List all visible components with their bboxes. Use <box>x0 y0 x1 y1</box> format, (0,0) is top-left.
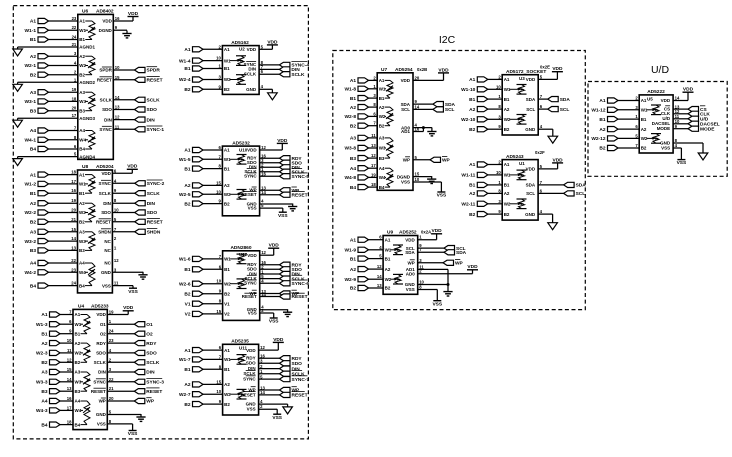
svg-text:SDO: SDO <box>101 210 111 215</box>
svg-text:14: 14 <box>67 377 72 382</box>
svg-text:VDD: VDD <box>683 87 694 93</box>
svg-text:GND: GND <box>101 270 112 275</box>
svg-text:B1: B1 <box>224 267 230 272</box>
svg-text:VSS: VSS <box>248 206 257 211</box>
svg-text:15: 15 <box>216 309 221 314</box>
svg-text:VDD: VDD <box>102 19 112 24</box>
svg-text:14: 14 <box>71 236 76 241</box>
svg-text:SCL: SCL <box>560 107 570 113</box>
svg-text:20: 20 <box>415 75 420 80</box>
svg-text:SYNC-5: SYNC-5 <box>292 174 310 180</box>
svg-text:U5: U5 <box>647 96 653 101</box>
svg-text:VSS: VSS <box>247 407 256 412</box>
svg-text:B2: B2 <box>184 402 190 408</box>
svg-text:A4: A4 <box>30 261 36 267</box>
svg-text:W2-12: W2-12 <box>591 136 605 142</box>
svg-text:B2: B2 <box>224 201 230 206</box>
svg-text:10: 10 <box>496 170 501 175</box>
svg-text:A2: A2 <box>79 201 85 206</box>
svg-text:W4-3: W4-3 <box>36 408 48 414</box>
svg-text:W2-8: W2-8 <box>345 114 357 120</box>
svg-text:15: 15 <box>115 75 120 80</box>
svg-text:DIN: DIN <box>103 201 111 206</box>
svg-text:23: 23 <box>72 16 77 21</box>
svg-text:VDD: VDD <box>552 66 563 72</box>
svg-text:VSS: VSS <box>128 431 138 437</box>
svg-text:W3-2: W3-2 <box>25 239 37 245</box>
svg-text:RESET: RESET <box>147 78 163 84</box>
svg-text:22: 22 <box>72 25 77 30</box>
svg-text:A4: A4 <box>379 166 385 171</box>
svg-text:B4: B4 <box>41 422 47 428</box>
svg-text:A2: A2 <box>75 341 81 346</box>
svg-text:U2: U2 <box>239 47 245 52</box>
svg-text:B2: B2 <box>224 291 230 296</box>
svg-text:AD1: AD1 <box>401 129 410 134</box>
svg-text:DIN: DIN <box>147 201 156 207</box>
svg-text:19: 19 <box>71 198 76 203</box>
svg-text:SCLK: SCLK <box>100 98 113 103</box>
svg-text:0x2F: 0x2F <box>535 150 545 155</box>
svg-text:W4-2: W4-2 <box>25 270 37 276</box>
svg-text:SDO: SDO <box>102 107 112 112</box>
svg-text:VSS: VSS <box>432 301 442 307</box>
svg-text:AGND4: AGND4 <box>79 154 95 159</box>
svg-text:SPDR: SPDR <box>99 68 112 73</box>
svg-text:0x2B: 0x2B <box>417 67 427 72</box>
svg-text:15: 15 <box>71 227 76 232</box>
svg-text:VDD: VDD <box>661 98 671 103</box>
svg-text:B1: B1 <box>184 367 190 373</box>
svg-text:W1-5: W1-5 <box>179 157 191 163</box>
svg-text:B1: B1 <box>469 97 475 103</box>
svg-text:B2: B2 <box>184 291 190 297</box>
svg-text:A3: A3 <box>41 370 47 376</box>
svg-text:24: 24 <box>109 329 114 334</box>
svg-text:21: 21 <box>72 42 77 47</box>
svg-text:SDA: SDA <box>526 97 536 102</box>
svg-text:13: 13 <box>71 245 76 250</box>
svg-text:B2: B2 <box>504 212 510 217</box>
svg-text:W1-4: W1-4 <box>179 58 191 64</box>
svg-text:SCL: SCL <box>526 107 535 112</box>
svg-text:B2: B2 <box>599 146 605 152</box>
svg-text:B2: B2 <box>385 286 391 291</box>
svg-text:12: 12 <box>261 145 266 150</box>
svg-text:10: 10 <box>496 84 501 89</box>
svg-text:NC: NC <box>104 261 111 266</box>
svg-text:A1: A1 <box>379 78 385 83</box>
svg-text:SDA: SDA <box>526 183 536 188</box>
svg-text:18: 18 <box>71 170 76 175</box>
svg-text:SDA: SDA <box>401 102 411 107</box>
svg-text:10: 10 <box>216 189 221 194</box>
svg-text:13: 13 <box>67 386 72 391</box>
svg-text:VDD: VDD <box>438 67 449 73</box>
svg-text:VDD: VDD <box>128 11 139 17</box>
svg-text:B1: B1 <box>379 96 385 101</box>
svg-text:U4: U4 <box>78 304 84 310</box>
svg-text:W2-7: W2-7 <box>179 392 191 398</box>
svg-text:RESET: RESET <box>242 192 257 197</box>
svg-text:U3: U3 <box>519 76 525 81</box>
svg-text:AD5252: AD5252 <box>399 230 417 236</box>
svg-text:18: 18 <box>371 182 376 187</box>
svg-text:VSS: VSS <box>677 160 687 166</box>
svg-text:RESET: RESET <box>147 220 163 226</box>
svg-text:10: 10 <box>216 389 221 394</box>
svg-text:SYNC: SYNC <box>244 174 257 179</box>
svg-text:SCLK: SCLK <box>99 191 112 196</box>
svg-text:A1: A1 <box>184 148 190 154</box>
svg-text:SDA: SDA <box>405 250 415 255</box>
svg-text:AGND1: AGND1 <box>79 45 95 50</box>
svg-text:SDA: SDA <box>445 102 456 108</box>
svg-text:10: 10 <box>415 177 420 182</box>
svg-text:A4: A4 <box>79 128 85 133</box>
svg-text:24: 24 <box>72 35 77 40</box>
svg-text:VDD: VDD <box>123 305 134 311</box>
svg-text:RDY: RDY <box>292 356 303 362</box>
svg-text:B2: B2 <box>504 127 510 132</box>
svg-text:A4: A4 <box>79 261 85 266</box>
svg-text:B1: B1 <box>385 256 391 261</box>
svg-text:B3: B3 <box>30 108 36 114</box>
svg-text:A3: A3 <box>79 90 85 95</box>
svg-text:B1: B1 <box>350 96 356 102</box>
svg-text:RESET: RESET <box>241 392 256 397</box>
svg-text:B3: B3 <box>379 156 385 161</box>
svg-text:20: 20 <box>72 106 77 111</box>
svg-text:W2-2: W2-2 <box>25 210 37 216</box>
svg-text:SYNC-1: SYNC-1 <box>147 127 165 133</box>
svg-text:AD5204: AD5204 <box>96 164 114 170</box>
svg-text:13: 13 <box>377 283 382 288</box>
svg-text:AD0: AD0 <box>406 271 415 276</box>
svg-text:GND: GND <box>525 127 536 132</box>
svg-text:VSS: VSS <box>248 311 257 316</box>
svg-text:DIN: DIN <box>98 370 106 375</box>
svg-text:A1: A1 <box>41 312 47 318</box>
svg-text:B2: B2 <box>79 220 85 225</box>
svg-text:17: 17 <box>72 113 77 118</box>
svg-text:SCL: SCL <box>526 191 535 196</box>
svg-text:W1-11: W1-11 <box>461 173 475 179</box>
svg-text:22: 22 <box>71 258 76 263</box>
svg-text:19: 19 <box>72 87 77 92</box>
svg-text:10: 10 <box>216 56 221 61</box>
svg-text:SCLK: SCLK <box>146 360 160 366</box>
svg-text:B1: B1 <box>504 97 510 102</box>
svg-text:23: 23 <box>71 267 76 272</box>
svg-text:A1: A1 <box>79 19 85 24</box>
svg-text:VDD: VDD <box>526 77 536 82</box>
svg-text:B1: B1 <box>30 191 36 197</box>
svg-text:SCLK: SCLK <box>243 371 256 376</box>
svg-text:I2C: I2C <box>439 34 456 46</box>
svg-text:B4: B4 <box>350 185 356 191</box>
svg-text:19: 19 <box>371 172 376 177</box>
svg-text:W2-3: W2-3 <box>36 351 48 357</box>
svg-text:10: 10 <box>115 65 120 70</box>
svg-text:B1: B1 <box>350 256 356 262</box>
svg-text:B1: B1 <box>224 367 230 372</box>
svg-text:SCL: SCL <box>576 191 586 197</box>
svg-text:VDD: VDD <box>247 148 257 153</box>
svg-text:SYNC-7: SYNC-7 <box>292 377 310 383</box>
svg-text:GND: GND <box>525 212 536 217</box>
svg-text:B2: B2 <box>379 123 385 128</box>
svg-text:A4: A4 <box>350 166 356 172</box>
svg-text:A1: A1 <box>504 77 510 82</box>
svg-text:W1-6: W1-6 <box>179 257 191 263</box>
svg-text:B1: B1 <box>599 117 605 123</box>
svg-text:A2: A2 <box>469 107 475 113</box>
svg-text:WP: WP <box>407 261 414 266</box>
svg-text:RDY: RDY <box>146 341 157 347</box>
svg-text:A1: A1 <box>350 78 356 84</box>
svg-text:B4: B4 <box>30 147 36 153</box>
svg-text:W3-1: W3-1 <box>25 99 37 105</box>
svg-text:A1: A1 <box>75 312 81 317</box>
svg-text:12: 12 <box>371 153 376 158</box>
svg-text:A1: A1 <box>224 348 230 353</box>
svg-text:A2: A2 <box>599 127 605 133</box>
svg-text:B2: B2 <box>641 146 647 151</box>
svg-text:VDD: VDD <box>405 237 415 242</box>
svg-text:14: 14 <box>377 274 382 279</box>
svg-text:U6: U6 <box>82 9 88 15</box>
svg-text:RESET: RESET <box>97 78 112 83</box>
svg-text:VDD: VDD <box>101 171 111 176</box>
svg-text:13: 13 <box>115 105 120 110</box>
svg-text:A2: A2 <box>224 183 230 188</box>
svg-text:10: 10 <box>216 279 221 284</box>
svg-text:VSS: VSS <box>401 180 410 185</box>
svg-text:20: 20 <box>71 208 76 213</box>
svg-text:B2: B2 <box>350 286 356 292</box>
svg-text:A2: A2 <box>184 382 190 388</box>
svg-text:AGND3: AGND3 <box>79 116 95 121</box>
svg-text:16: 16 <box>115 16 120 21</box>
svg-text:12: 12 <box>261 250 266 255</box>
svg-text:VSS: VSS <box>269 319 279 325</box>
svg-text:RESET: RESET <box>146 389 162 395</box>
svg-text:VDD: VDD <box>247 47 257 52</box>
svg-text:SDO: SDO <box>246 361 256 366</box>
svg-text:0x2A: 0x2A <box>421 230 431 235</box>
svg-text:RESET: RESET <box>242 294 257 299</box>
svg-text:VDD: VDD <box>401 78 411 83</box>
svg-text:B1: B1 <box>469 183 475 189</box>
svg-text:A2: A2 <box>79 54 85 59</box>
svg-text:B1: B1 <box>184 267 190 273</box>
svg-text:AD5222: AD5222 <box>647 89 665 95</box>
svg-text:0x2E: 0x2E <box>540 65 550 70</box>
svg-text:B2: B2 <box>41 360 47 366</box>
svg-text:RESET: RESET <box>292 192 308 198</box>
svg-text:AGND2: AGND2 <box>79 80 95 85</box>
svg-text:VSS: VSS <box>661 146 670 151</box>
svg-text:AD5233: AD5233 <box>91 304 109 310</box>
svg-text:SYNC: SYNC <box>244 281 257 286</box>
svg-text:W1-8: W1-8 <box>345 87 357 93</box>
svg-text:SDO: SDO <box>147 210 158 216</box>
svg-text:SYNC: SYNC <box>93 380 106 385</box>
svg-text:B1: B1 <box>184 66 190 72</box>
svg-text:17: 17 <box>371 163 376 168</box>
svg-text:B2: B2 <box>30 72 36 78</box>
svg-text:A3: A3 <box>75 370 81 375</box>
svg-text:A2: A2 <box>41 341 47 347</box>
svg-text:A1: A1 <box>224 47 230 52</box>
svg-text:A2: A2 <box>385 267 391 272</box>
svg-text:SCL: SCL <box>401 107 410 112</box>
svg-text:DIN: DIN <box>146 370 155 376</box>
svg-text:VDD: VDD <box>432 228 443 234</box>
svg-text:SYNC-6: SYNC-6 <box>292 281 310 287</box>
svg-text:B3: B3 <box>79 248 85 253</box>
svg-text:A2: A2 <box>504 191 510 196</box>
svg-text:VDD: VDD <box>467 264 478 270</box>
svg-text:10: 10 <box>114 208 119 213</box>
svg-text:15: 15 <box>67 367 72 372</box>
svg-text:NC: NC <box>104 239 111 244</box>
svg-text:B2: B2 <box>184 87 190 93</box>
svg-text:15: 15 <box>415 172 420 177</box>
svg-text:WP: WP <box>146 399 155 405</box>
svg-text:RESET: RESET <box>91 389 106 394</box>
svg-text:21: 21 <box>71 217 76 222</box>
svg-text:A3: A3 <box>30 90 36 96</box>
svg-text:A2: A2 <box>30 201 36 207</box>
svg-text:SCLK: SCLK <box>291 72 305 78</box>
svg-text:ADN2860: ADN2860 <box>230 245 251 251</box>
svg-text:SPDR: SPDR <box>147 68 161 74</box>
svg-text:A3: A3 <box>30 230 36 236</box>
svg-text:A3: A3 <box>79 230 85 235</box>
svg-text:A1: A1 <box>184 47 190 53</box>
svg-text:AD5243: AD5243 <box>506 154 524 160</box>
svg-text:SYNC-3: SYNC-3 <box>146 380 164 386</box>
svg-text:O2: O2 <box>100 331 106 336</box>
svg-text:A1: A1 <box>184 348 190 354</box>
svg-text:A1: A1 <box>469 77 475 83</box>
svg-text:B1: B1 <box>224 66 230 71</box>
svg-text:W1-7: W1-7 <box>179 357 191 363</box>
svg-text:DGND: DGND <box>397 174 411 179</box>
svg-text:DIN: DIN <box>104 117 112 122</box>
svg-text:SDA: SDA <box>456 250 467 256</box>
svg-text:VSS: VSS <box>128 289 138 295</box>
svg-text:B4: B4 <box>379 185 385 190</box>
svg-text:B2: B2 <box>224 87 230 92</box>
svg-text:12: 12 <box>67 357 72 362</box>
svg-text:B3: B3 <box>41 389 47 395</box>
svg-text:SHDN: SHDN <box>147 230 161 236</box>
svg-text:B1: B1 <box>30 37 36 43</box>
svg-text:W4-8: W4-8 <box>345 175 357 181</box>
svg-text:20: 20 <box>109 396 114 401</box>
svg-text:A2: A2 <box>379 105 385 110</box>
svg-text:V1: V1 <box>224 301 230 306</box>
svg-text:A1: A1 <box>469 162 475 168</box>
svg-text:VDD: VDD <box>526 167 536 172</box>
svg-text:WP: WP <box>403 158 410 163</box>
svg-text:VDD: VDD <box>277 138 288 144</box>
svg-text:MODE: MODE <box>657 126 670 131</box>
svg-text:AD5254: AD5254 <box>395 67 413 73</box>
svg-text:24: 24 <box>71 281 76 286</box>
svg-text:SHDN: SHDN <box>98 230 111 235</box>
svg-text:W2-5: W2-5 <box>179 192 191 198</box>
svg-text:VDD: VDD <box>246 348 256 353</box>
svg-text:VSS: VSS <box>278 213 288 219</box>
svg-text:W3-8: W3-8 <box>345 146 357 152</box>
svg-text:B2: B2 <box>184 201 190 207</box>
svg-text:B3: B3 <box>75 389 81 394</box>
svg-text:VDD: VDD <box>273 337 284 343</box>
svg-text:B3: B3 <box>79 108 85 113</box>
svg-text:SYNC-2: SYNC-2 <box>147 181 165 187</box>
svg-text:W1-12: W1-12 <box>591 108 605 114</box>
svg-text:VDD: VDD <box>553 157 564 163</box>
svg-text:A1: A1 <box>385 237 391 242</box>
svg-text:AD5232: AD5232 <box>232 140 250 146</box>
svg-text:WP: WP <box>455 261 464 267</box>
svg-text:MODE: MODE <box>700 126 715 132</box>
svg-text:VDD: VDD <box>127 164 138 170</box>
svg-text:18: 18 <box>72 96 77 101</box>
svg-text:A3: A3 <box>379 136 385 141</box>
svg-text:SCL: SCL <box>445 107 455 113</box>
svg-text:B1: B1 <box>504 183 510 188</box>
svg-text:VSS: VSS <box>272 415 282 421</box>
svg-text:AD5235: AD5235 <box>231 339 249 345</box>
svg-text:VSS: VSS <box>97 422 106 427</box>
svg-text:W1-9: W1-9 <box>345 248 357 254</box>
svg-text:U8: U8 <box>82 164 88 170</box>
svg-text:B4: B4 <box>79 147 85 152</box>
svg-text:18: 18 <box>67 420 72 425</box>
svg-text:13: 13 <box>371 143 376 148</box>
svg-text:SCLK: SCLK <box>94 360 107 365</box>
svg-text:23: 23 <box>109 338 114 343</box>
svg-text:B1: B1 <box>41 331 47 337</box>
svg-text:15: 15 <box>216 180 221 185</box>
svg-text:12: 12 <box>377 264 382 269</box>
svg-text:14: 14 <box>115 95 120 100</box>
svg-text:W2-1: W2-1 <box>25 63 37 69</box>
svg-text:14: 14 <box>415 104 420 109</box>
svg-text:SYNC: SYNC <box>98 181 111 186</box>
svg-text:A1: A1 <box>350 237 356 243</box>
svg-text:O2: O2 <box>146 331 153 337</box>
svg-text:W2-10: W2-10 <box>461 117 475 123</box>
svg-text:O1: O1 <box>100 322 106 327</box>
svg-text:17: 17 <box>67 405 72 410</box>
svg-text:A2: A2 <box>350 267 356 273</box>
svg-text:SCLK: SCLK <box>147 191 161 197</box>
svg-text:19: 19 <box>109 310 114 315</box>
svg-text:B1: B1 <box>75 331 81 336</box>
svg-text:11: 11 <box>67 348 72 353</box>
svg-text:W1-2: W1-2 <box>25 182 37 188</box>
svg-text:A1: A1 <box>641 98 647 103</box>
svg-text:GND: GND <box>246 87 257 92</box>
svg-text:SCLK: SCLK <box>292 371 306 377</box>
svg-text:RESET: RESET <box>96 220 111 225</box>
